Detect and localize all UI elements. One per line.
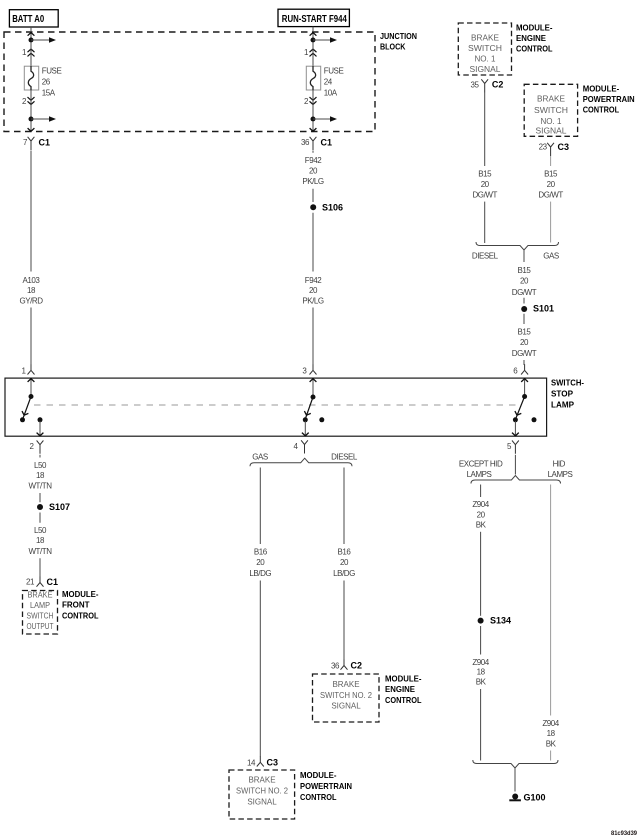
svg-text:20: 20 [256,558,265,567]
svg-text:20: 20 [520,338,529,347]
svg-text:JUNCTION: JUNCTION [380,31,417,41]
svg-text:F942: F942 [305,276,322,285]
svg-text:BATT A0: BATT A0 [12,14,44,25]
brace diesel/gas join [476,242,559,250]
switch pole 2 entry arrow [312,379,314,396]
svg-text:LB/DG: LB/DG [249,569,271,578]
svg-text:20: 20 [547,180,556,189]
svg-text:NO. 1: NO. 1 [541,117,563,126]
svg-text:ENGINE: ENGINE [516,33,546,43]
svg-text:20: 20 [477,510,486,519]
brace hid split [471,476,561,484]
svg-text:NO. 1: NO. 1 [475,55,497,64]
svg-text:GAS: GAS [543,252,559,261]
svg-text:CONTROL: CONTROL [583,105,620,115]
wire [523,360,525,365]
svg-text:WT/TN: WT/TN [28,547,52,556]
power feed RUN-START F944 [278,9,349,26]
mechanical link dashed line [34,404,516,406]
brace ground join [473,760,558,768]
svg-text:C3: C3 [558,142,570,152]
wire [30,42,32,66]
svg-text:35: 35 [471,81,480,90]
node junction fused output [29,117,34,122]
svg-text:20: 20 [481,180,490,189]
svg-text:26: 26 [42,77,51,86]
svg-text:BK: BK [476,521,487,530]
svg-text:DG/WT: DG/WT [512,349,537,358]
svg-text:C3: C3 [267,758,279,768]
svg-text:Z904: Z904 [472,500,489,509]
switch pole 3 entry arrow [524,379,526,395]
arrow into junction block [28,33,35,36]
svg-text:MODULE-: MODULE- [62,589,99,599]
splice S101 [521,306,527,312]
svg-text:S107: S107 [49,502,70,512]
module front control box [23,591,58,635]
svg-text:C2: C2 [492,80,504,90]
svg-text:23: 23 [539,143,548,152]
switch pole 1 pivot [29,394,34,399]
svg-text:Z904: Z904 [542,719,559,728]
wire diesel branch lower [343,581,345,661]
svg-text:BK: BK [546,739,557,748]
switch pole 1 blade [23,397,31,418]
svg-text:L50: L50 [34,526,47,535]
svg-text:L50: L50 [34,461,47,470]
svg-text:BK: BK [476,678,487,687]
svg-text:Z904: Z904 [472,658,489,667]
switch pole 2 pivot [311,395,316,400]
switch pole 2 blade [306,397,313,418]
svg-text:81c93d39: 81c93d39 [611,830,637,837]
switch pole 3 pivot [522,394,527,399]
switch pole 3 open contact [532,417,537,422]
svg-text:WT/TN: WT/TN [28,482,52,491]
svg-text:CONTROL: CONTROL [516,44,553,54]
wire A103 upper [30,151,32,272]
wire [523,314,525,324]
svg-text:SWITCH: SWITCH [468,44,502,53]
svg-text:B15: B15 [518,327,532,336]
wire pole1 to pin 2 [39,421,41,435]
wire [484,202,486,243]
svg-text:S106: S106 [322,202,343,212]
svg-text:B15: B15 [518,266,532,275]
wire A103 lower [30,308,32,365]
splice S134 [478,618,484,624]
svg-text:14: 14 [247,759,256,768]
wire [312,308,314,365]
svg-text:OUTPUT: OUTPUT [27,622,54,631]
svg-text:SWITCH: SWITCH [27,612,54,621]
svg-text:B16: B16 [338,548,352,557]
svg-text:CONTROL: CONTROL [62,611,99,621]
wire branch right [31,39,50,41]
svg-text:BRAKE: BRAKE [471,33,499,42]
svg-text:PK/LG: PK/LG [302,177,324,186]
wire [523,298,525,304]
wire [39,558,41,577]
wire [550,202,552,243]
fuse F26 15A [24,66,38,90]
svg-text:LAMPS: LAMPS [467,470,492,479]
svg-text:36: 36 [301,138,310,147]
svg-text:MODULE-: MODULE- [385,674,422,684]
node junction fused RUN output [311,117,316,122]
svg-text:S134: S134 [490,616,511,626]
wire B15 engine [484,93,486,167]
wire B15 powertrain [550,156,552,166]
svg-text:A103: A103 [23,276,41,285]
wire [312,213,314,272]
wire [480,626,482,655]
svg-text:FUSE: FUSE [42,67,62,76]
switch pole 2 open contact [319,417,324,422]
svg-text:18: 18 [477,668,486,677]
svg-text:10A: 10A [324,89,338,98]
wire [480,689,482,761]
svg-text:SWITCH NO. 2: SWITCH NO. 2 [236,787,289,796]
wire [514,455,516,475]
wire L50 [39,455,41,458]
svg-text:POWERTRAIN: POWERTRAIN [583,94,635,104]
svg-text:MODULE-: MODULE- [516,23,553,33]
node junction BATT feed [29,38,34,43]
svg-text:FUSE: FUSE [324,67,344,76]
wire pole3 to pin 5 [514,421,516,435]
power feed BATT A0 [9,10,58,27]
svg-text:LAMPS: LAMPS [548,470,573,479]
node junction RUN feed [311,38,316,43]
svg-text:SWITCH: SWITCH [534,106,568,115]
svg-text:DG/WT: DG/WT [512,288,537,297]
svg-text:B16: B16 [254,548,268,557]
wire gas branch lower [259,581,261,757]
svg-text:18: 18 [547,729,556,738]
svg-text:STOP: STOP [551,389,573,399]
svg-text:LB/DG: LB/DG [333,569,355,578]
wire [39,513,41,523]
svg-text:G100: G100 [524,793,546,803]
svg-text:F942: F942 [305,156,322,165]
svg-text:18: 18 [27,286,36,295]
svg-text:FRONT: FRONT [62,600,90,610]
module engine control box upper [458,23,511,75]
switch pole 1 open contact [20,417,25,422]
svg-text:PK/LG: PK/LG [302,297,324,306]
switch pole 2 output contact [303,417,308,422]
svg-text:DG/WT: DG/WT [538,190,563,199]
svg-text:SWITCH NO. 2: SWITCH NO. 2 [320,691,373,700]
wire [550,751,552,761]
svg-text:20: 20 [309,286,318,295]
wire [312,189,314,202]
wire pole2 to pin 4 [304,421,306,435]
svg-text:DIESEL: DIESEL [472,252,499,261]
wire diesel branch [343,468,345,545]
svg-text:MODULE-: MODULE- [300,770,337,780]
svg-text:B15: B15 [544,170,558,179]
svg-text:LAMP: LAMP [551,400,574,410]
svg-text:15A: 15A [42,89,56,98]
wire RUN-START to junction block [312,27,314,40]
svg-text:RUN-START F944: RUN-START F944 [282,14,347,25]
svg-text:GAS: GAS [252,453,268,462]
svg-text:BRAKE: BRAKE [332,680,359,689]
svg-text:DIESEL: DIESEL [331,453,358,462]
junction block [4,32,375,132]
svg-text:S101: S101 [533,304,554,314]
svg-text:C2: C2 [351,661,363,671]
ground G100 [509,794,521,802]
svg-text:C1: C1 [321,138,333,148]
svg-text:EXCEPT HID: EXCEPT HID [459,459,503,468]
splice S106 [310,204,316,210]
wire to ground [514,768,516,792]
wire except-hid branch [480,485,482,498]
wire [480,532,482,616]
svg-text:HID: HID [553,459,566,468]
svg-text:BRAKE: BRAKE [28,591,53,600]
svg-text:36: 36 [331,662,340,671]
svg-text:CONTROL: CONTROL [385,695,422,705]
svg-text:BRAKE: BRAKE [537,95,565,104]
svg-text:18: 18 [36,471,45,480]
svg-text:C1: C1 [47,577,59,587]
svg-text:20: 20 [309,166,318,175]
fuse F24 10A [306,66,320,90]
wire hid branch [550,485,552,716]
svg-text:LAMP: LAMP [30,601,50,610]
switch pole 1 entry arrow [30,379,32,395]
wire [39,493,41,502]
svg-text:B15: B15 [478,170,492,179]
wire [30,90,32,119]
switch pole 3 blade [516,397,524,418]
svg-text:SWITCH-: SWITCH- [551,378,584,388]
svg-text:BRAKE: BRAKE [248,776,275,785]
svg-text:SIGNAL: SIGNAL [470,65,502,74]
svg-text:SIGNAL: SIGNAL [247,798,277,807]
wire with exit arrow [30,121,32,131]
svg-text:18: 18 [36,536,45,545]
svg-text:C1: C1 [39,138,51,148]
wire BATT to junction block [30,27,32,40]
svg-text:GY/RD: GY/RD [19,297,43,306]
svg-text:24: 24 [324,77,333,86]
brace gas/diesel split [250,458,352,466]
svg-text:20: 20 [520,276,529,285]
svg-text:MODULE-: MODULE- [583,84,620,94]
switch pole 1 output contact [38,417,43,422]
svg-text:POWERTRAIN: POWERTRAIN [300,781,352,791]
module powertrain control box lower [229,770,295,819]
svg-text:CONTROL: CONTROL [300,792,337,802]
svg-text:SIGNAL: SIGNAL [536,127,568,136]
wire joined B15 [523,250,525,262]
svg-text:BLOCK: BLOCK [380,42,406,52]
svg-text:21: 21 [26,578,35,587]
splice S107 [37,504,43,510]
svg-text:DG/WT: DG/WT [472,190,497,199]
svg-text:ENGINE: ENGINE [385,684,415,694]
switch stop lamp box [5,378,547,436]
svg-text:20: 20 [340,558,349,567]
module powertrain control box upper [524,84,577,136]
svg-text:SIGNAL: SIGNAL [331,702,361,711]
wire gas branch [259,468,261,545]
module engine control box lower [313,674,380,722]
wire F942 upper [312,151,314,153]
switch pole 3 output contact [513,417,518,422]
